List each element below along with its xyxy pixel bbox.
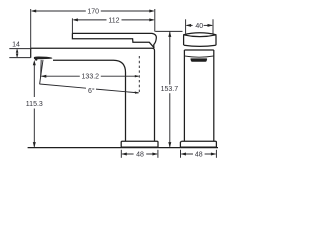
svg-text:170: 170 <box>87 9 99 16</box>
svg-text:14: 14 <box>12 42 20 49</box>
svg-text:133.2: 133.2 <box>82 74 100 81</box>
svg-text:112: 112 <box>108 17 119 24</box>
svg-text:115.3: 115.3 <box>26 101 43 108</box>
svg-text:6°: 6° <box>88 87 95 95</box>
svg-text:153.7: 153.7 <box>161 86 179 93</box>
svg-text:40: 40 <box>195 23 203 30</box>
svg-text:48: 48 <box>195 151 203 158</box>
svg-text:48: 48 <box>136 151 144 158</box>
